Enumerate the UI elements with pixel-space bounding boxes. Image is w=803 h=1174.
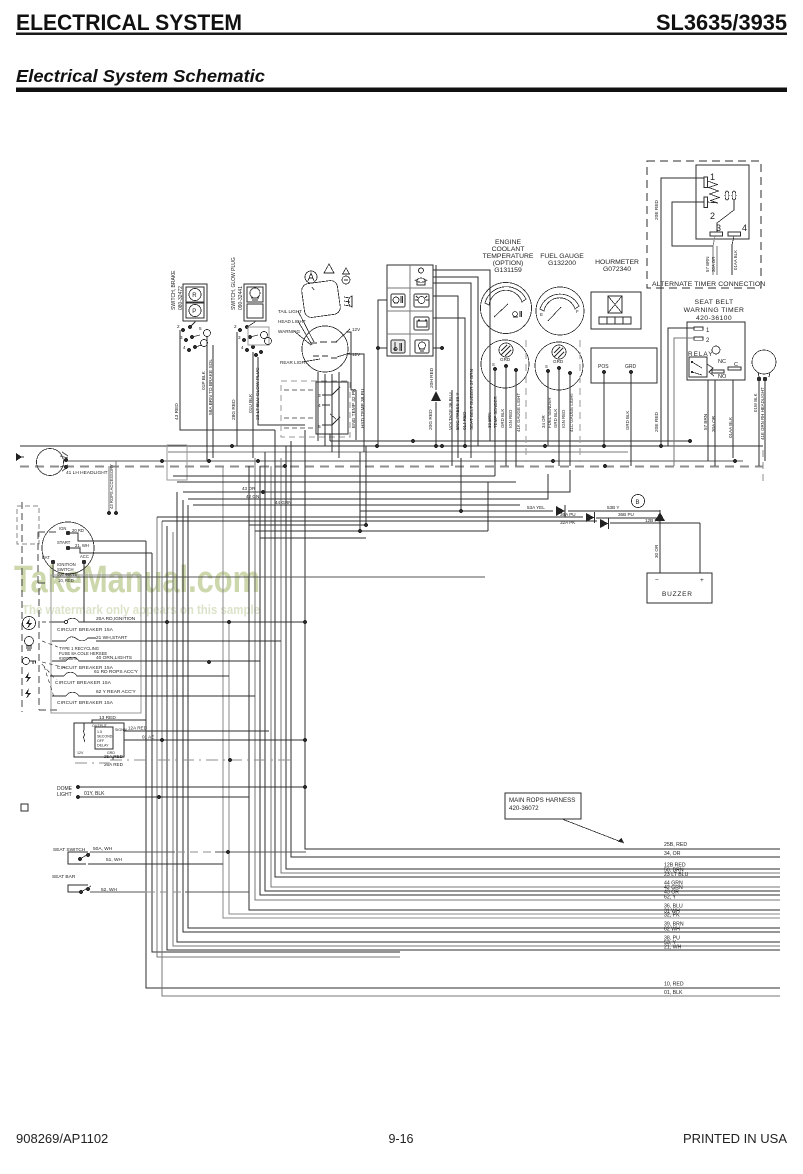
svg-text:10, RED: 10, RED	[664, 982, 684, 988]
svg-text:62, Y: 62, Y	[664, 895, 677, 901]
wire 34 OR	[291, 441, 780, 857]
svg-text:23 LT BLU: 23 LT BLU	[664, 872, 689, 878]
svg-text:MAIN ROPS HARNESS: MAIN ROPS HARNESS	[509, 797, 575, 804]
svg-text:IGN: IGN	[59, 526, 66, 531]
svg-text:39 BRN: 39 BRN	[487, 413, 492, 428]
header underline rule	[16, 33, 787, 36]
svg-text:30 OR: 30 OR	[654, 544, 659, 558]
timer 30A OR wire	[714, 380, 716, 466]
icon seat belt person	[415, 268, 427, 285]
svg-text:ALTERNATE TIMER CONNECTION: ALTERNATE TIMER CONNECTION	[652, 281, 765, 288]
fuse panel boundary (grey)	[51, 575, 141, 713]
icon: lightning 1	[25, 672, 31, 683]
alt timer pin3 wires 57BRN 30A OR	[713, 236, 717, 275]
wire 21 WH lower	[167, 526, 780, 950]
fuse F1 recycling	[52, 635, 127, 661]
svg-text:9-16: 9-16	[388, 1132, 413, 1146]
svg-text:+: +	[700, 577, 704, 584]
dashed boundary icon column	[22, 502, 60, 712]
svg-text:GRD BLK: GRD BLK	[625, 411, 630, 430]
svg-text:VOLTAGE 36 BLU: VOLTAGE 36 BLU	[448, 392, 453, 430]
svg-text:01, BLK: 01, BLK	[664, 990, 683, 996]
svg-text:090-32035: 090-32035	[57, 572, 78, 577]
svg-text:1: 1	[710, 172, 715, 182]
wire 44 GRN	[271, 466, 780, 887]
svg-text:53A YEL: 53A YEL	[527, 505, 545, 510]
icon battery cell	[414, 317, 429, 330]
flasher module	[281, 381, 350, 441]
svg-text:OUTPUT: OUTPUT	[92, 724, 108, 728]
fuel dashed boundary	[579, 340, 581, 462]
warning triangle small + circle	[342, 268, 350, 284]
icon temp cell	[391, 340, 405, 353]
wire 10 RED	[146, 541, 780, 988]
dashed boundary around ignition	[38, 532, 60, 583]
LH headlight lamp 41	[37, 449, 108, 477]
svg-text:HYD TEMP 38 PU: HYD TEMP 38 PU	[360, 388, 366, 428]
grey harness outline box	[167, 445, 187, 480]
grid wires left	[378, 300, 387, 348]
svg-text:Electrical System Schematic: Electrical System Schematic	[16, 66, 265, 86]
svg-text:01AA BLK: 01AA BLK	[728, 416, 733, 438]
wire mid y525	[249, 524, 366, 526]
svg-text:34 OR: 34 OR	[541, 415, 546, 428]
svg-text:21, WH: 21, WH	[75, 543, 89, 548]
svg-text:DELAY: DELAY	[97, 744, 109, 748]
svg-text:01J RED: 01J RED	[462, 411, 467, 430]
wire 58A BRN to brake sol	[212, 345, 214, 458]
alt timer pin4 wire 01AA BLK	[732, 236, 734, 275]
svg-text:4: 4	[318, 403, 321, 409]
svg-text:TEMPERATURE: TEMPERATURE	[483, 253, 534, 260]
wire 25A RED	[112, 757, 114, 760]
svg-text:3: 3	[716, 223, 721, 233]
fuel sender	[535, 342, 583, 390]
circled node B	[632, 495, 645, 508]
svg-text:2: 2	[234, 324, 237, 329]
svg-text:20G RED: 20G RED	[428, 409, 434, 430]
svg-text:57 BRN: 57 BRN	[703, 414, 708, 430]
temp gauge meter	[481, 283, 532, 334]
wire 42 GN upper	[188, 474, 548, 499]
wire breaker4 out	[92, 695, 255, 697]
footer doc number	[16, 1131, 787, 1146]
timer pin1 wire	[668, 328, 694, 446]
wire 43 RED from brake	[180, 330, 275, 430]
switch, brake 080-32472	[171, 270, 207, 321]
svg-text:IGN RED: IGN RED	[561, 410, 566, 428]
brake switch pins	[177, 321, 211, 352]
svg-text:POS: POS	[598, 364, 609, 370]
svg-text:420-36072: 420-36072	[509, 805, 539, 812]
svg-text:61 RD ROPS ACC'Y: 61 RD ROPS ACC'Y	[94, 669, 139, 675]
svg-text:1: 1	[706, 328, 710, 334]
icon: key	[23, 658, 37, 665]
svg-text:C: C	[734, 362, 738, 368]
circuit breaker CB2 15A (lights)	[52, 655, 132, 670]
svg-text:41 LH HEADLIGHT: 41 LH HEADLIGHT	[66, 470, 108, 476]
dome light	[57, 785, 105, 799]
svg-text:23 LT BLU GLOW PLUG: 23 LT BLU GLOW PLUG	[255, 367, 261, 420]
svg-text:090-32441: 090-32441	[238, 286, 244, 310]
svg-text:SECOND: SECOND	[97, 735, 113, 739]
diode D1 53A YEL	[360, 505, 660, 517]
wire seat bar 52	[90, 891, 249, 893]
circuit breaker CB3 15A (ROPS accy)	[50, 669, 139, 685]
svg-text:01P BLK: 01P BLK	[201, 370, 207, 390]
grid wires right	[433, 283, 471, 446]
temp dashed boundary	[525, 340, 527, 462]
svg-text:40 ORN,LIGHTS: 40 ORN,LIGHTS	[96, 655, 132, 661]
svg-text:2: 2	[706, 338, 710, 344]
svg-text:−: −	[655, 577, 659, 584]
timer pin2 wire	[674, 338, 694, 466]
svg-text:ENGINE: ENGINE	[495, 239, 522, 246]
circuit breaker CB4 15A (rear accy)	[52, 689, 136, 705]
svg-text:4: 4	[241, 345, 244, 350]
svg-text:44 GRN: 44 GRN	[275, 500, 292, 505]
svg-text:PRINTED IN USA: PRINTED IN USA	[683, 1131, 787, 1146]
vertical x488	[461, 458, 488, 531]
wire 62 Y	[255, 458, 780, 900]
svg-text:50A, WH: 50A, WH	[93, 846, 113, 852]
RH headlight lamp	[752, 350, 776, 440]
svg-text:20E RED: 20E RED	[654, 199, 660, 220]
svg-text:IGN RED: IGN RED	[508, 410, 513, 428]
svg-text:21 WH,START: 21 WH,START	[96, 635, 127, 641]
svg-text:NO: NO	[718, 374, 727, 380]
warning icon circled A	[305, 271, 317, 283]
wire mid y531	[255, 530, 488, 532]
svg-text:S: S	[545, 364, 548, 369]
wire 42 GRN	[265, 452, 780, 891]
icon: lightning 2	[25, 688, 31, 699]
svg-text:42 GN: 42 GN	[246, 494, 259, 499]
svg-text:SEAT BELT BUZZER 37 BRN: SEAT BELT BUZZER 37 BRN	[469, 369, 474, 430]
svg-text:420-36100: 420-36100	[696, 315, 732, 322]
svg-text:G131159: G131159	[494, 267, 522, 274]
svg-text:62 WH: 62 WH	[664, 927, 680, 933]
svg-text:5: 5	[199, 326, 202, 331]
wire 12A RED	[124, 730, 269, 732]
svg-text:20A RD,IGNITION: 20A RD,IGNITION	[96, 616, 136, 622]
svg-text:REAR LIGHT: REAR LIGHT	[280, 360, 308, 365]
wire 01U BLK	[252, 352, 254, 458]
timer 01AA BLK wire	[732, 380, 734, 458]
svg-text:01U BLK: 01U BLK	[248, 393, 254, 413]
seat switch	[52, 846, 123, 893]
wire 12B RED	[286, 446, 780, 869]
wire: bus y452 segment	[168, 451, 628, 453]
diode D2 36A PU	[157, 512, 660, 523]
svg-text:2: 2	[177, 324, 180, 329]
wire start 21WH to bundle	[70, 548, 152, 553]
wire 23 LT BLU	[275, 430, 780, 877]
svg-text:62 Y REAR ACC'Y: 62 Y REAR ACC'Y	[96, 689, 136, 695]
svg-text:SEAT BAR: SEAT BAR	[52, 874, 76, 880]
svg-text:20E RED: 20E RED	[654, 411, 660, 432]
svg-text:01AA BLK: 01AA BLK	[733, 250, 738, 270]
wire 62 WH	[183, 500, 780, 932]
wire hyd temp 38 PU	[346, 354, 364, 452]
svg-text:58A BRN TO BRAKE SOL: 58A BRN TO BRAKE SOL	[208, 359, 214, 415]
svg-text:START: START	[57, 540, 71, 545]
wire 01 BLK	[162, 521, 780, 996]
svg-text:GRD: GRD	[553, 359, 564, 364]
svg-text:12A RED: 12A RED	[128, 726, 148, 731]
diode D3 32A PK	[162, 518, 700, 529]
svg-text:25A RED: 25A RED	[104, 754, 124, 759]
svg-text:GRD BLK: GRD BLK	[500, 409, 505, 428]
svg-text:12V: 12V	[77, 751, 84, 755]
svg-text:43 RED: 43 RED	[174, 403, 180, 420]
junction dots on buses	[64, 439, 737, 469]
wire 36 BLU	[249, 466, 780, 910]
wire: main bus y446	[20, 445, 763, 447]
svg-text:BUZZER: BUZZER	[662, 591, 693, 598]
wire acc drop	[83, 564, 85, 622]
wire breaker3 out	[90, 675, 229, 677]
circuit breaker CB1 15A (ignition)	[52, 616, 136, 632]
wire temp sender S run	[173, 475, 495, 477]
subtitle thick bar	[16, 88, 787, 93]
svg-text:12V: 12V	[352, 327, 361, 332]
svg-text:3: 3	[238, 335, 241, 340]
svg-text:FUEL SENDER: FUEL SENDER	[547, 397, 552, 428]
alt timer 20E RED wire	[661, 178, 704, 446]
temp sender	[481, 340, 529, 388]
svg-text:01 AE: 01 AE	[142, 735, 154, 740]
svg-text:G072340: G072340	[603, 266, 631, 273]
svg-text:43 ROPS ACCESSORY: 43 ROPS ACCESSORY	[109, 464, 114, 509]
wire gauge grd run	[177, 481, 516, 483]
subtitle Electrical System Schematic	[16, 66, 265, 86]
icon: lightning circle	[23, 617, 36, 630]
svg-text:30A OR: 30A OR	[711, 257, 716, 272]
svg-text:41E ORN RH HEADLIGHT: 41E ORN RH HEADLIGHT	[760, 387, 765, 440]
svg-text:43 OR: 43 OR	[242, 486, 256, 491]
glow switch pins	[234, 321, 272, 357]
wire 39 BRN	[188, 505, 780, 928]
svg-text:21, WH: 21, WH	[664, 945, 682, 951]
svg-text:OFF: OFF	[97, 739, 105, 743]
switch, glow plug 090-32441	[231, 257, 266, 321]
svg-text:5: 5	[318, 424, 321, 430]
svg-text:ACC: ACC	[80, 554, 89, 559]
fuel gauge meter	[536, 287, 584, 335]
wire 53 Y	[173, 532, 780, 946]
svg-text:CIRCUIT BREAKER 15A: CIRCUIT BREAKER 15A	[57, 700, 114, 705]
light switch rotary	[278, 309, 361, 372]
svg-text:01Y, BLK: 01Y, BLK	[84, 791, 105, 797]
wire fuse out	[96, 640, 281, 642]
wire 38 PU	[177, 492, 780, 942]
svg-text:SWITCH, GLOW PLUG: SWITCH, GLOW PLUG	[231, 257, 237, 310]
svg-text:P: P	[192, 309, 196, 315]
wire 23 LT BLU glow plug	[258, 357, 305, 425]
wire 26A RED dash-dot	[75, 760, 290, 763]
svg-text:CIRCUIT BREAKER 15A: CIRCUIT BREAKER 15A	[57, 627, 114, 632]
svg-text:41K GAUGE LIGHT: 41K GAUGE LIGHT	[516, 393, 521, 432]
wire: bus y441 right segment	[330, 440, 690, 442]
svg-text:NC: NC	[718, 359, 726, 365]
wire breaker1 out	[92, 621, 305, 623]
wire 50 BRN	[281, 458, 780, 873]
hourmeter	[591, 292, 641, 329]
watermark TakeManual.com	[14, 559, 260, 617]
rocker pad tilted rounded square	[301, 280, 341, 319]
svg-text:36B PU: 36B PU	[618, 512, 634, 517]
temp sender wires	[495, 368, 516, 476]
icon glow plug cell	[391, 294, 405, 307]
wire 32 PK	[223, 466, 780, 918]
wire dome 1	[80, 786, 305, 788]
wire 01AE	[124, 739, 305, 741]
wire: bus y461	[63, 460, 743, 462]
wire: dashed ground bus y466	[20, 466, 763, 468]
svg-text:COOLANT: COOLANT	[492, 246, 525, 253]
headlight beam icon	[344, 296, 352, 307]
dashed links icons to breakers	[42, 622, 66, 697]
svg-text:ENG PRESS 33 Y: ENG PRESS 33 Y	[455, 393, 460, 430]
icon engine fan cell	[414, 294, 429, 307]
MAIN ROPS HARNESS label box	[505, 793, 581, 819]
svg-text:20 RD: 20 RD	[72, 528, 84, 533]
svg-text:SEAT BELT: SEAT BELT	[694, 299, 733, 306]
wire 28G RED	[236, 332, 238, 446]
time delay module 1.5s	[74, 715, 154, 767]
svg-text:57 BRN: 57 BRN	[705, 257, 710, 272]
icon bulb cell	[415, 340, 429, 353]
svg-text:CIRCUIT BREAKER 15A: CIRCUIT BREAKER 15A	[55, 680, 112, 685]
wire 01P BLK	[206, 336, 208, 461]
header title ELECTRICAL SYSTEM	[16, 10, 787, 35]
svg-text:SWITCH, BRAKE: SWITCH, BRAKE	[171, 270, 177, 310]
ignition switch 090-32035	[42, 522, 94, 583]
svg-text:51, WH: 51, WH	[106, 857, 123, 863]
svg-text:4: 4	[183, 345, 186, 350]
diode D4 vertical 30 OR	[654, 510, 665, 573]
svg-text:25B, RED: 25B, RED	[664, 842, 687, 848]
svg-text:SIGNAL: SIGNAL	[115, 728, 128, 732]
svg-text:HEAD LIGHT: HEAD LIGHT	[278, 319, 306, 324]
harness wire labels right side	[664, 842, 689, 996]
svg-text:20H RED: 20H RED	[429, 367, 435, 388]
buzzer	[647, 573, 712, 603]
wire bat 10 RED down	[53, 564, 485, 577]
wire 25B RED	[305, 430, 780, 849]
svg-text:TEMP SENDER: TEMP SENDER	[493, 396, 498, 428]
svg-text:BAT: BAT	[42, 555, 50, 560]
pos/grd terminal box	[591, 348, 657, 383]
svg-text:WARNING TIMER: WARNING TIMER	[684, 307, 745, 314]
engine coolant temp gauge labels	[483, 239, 639, 274]
wire breaker2 out	[92, 660, 260, 662]
pos/grd wires	[604, 374, 631, 466]
svg-text:53B Y: 53B Y	[607, 505, 619, 510]
fuel sender wires	[548, 370, 570, 466]
svg-text:32A PK: 32A PK	[560, 520, 576, 525]
svg-text:(OPTION): (OPTION)	[493, 260, 524, 267]
svg-text:LIGHT: LIGHT	[57, 792, 72, 798]
wire ign 20RD to bundle	[70, 533, 146, 541]
wire dome 2	[80, 796, 249, 798]
svg-text:41C GAUGE LIGHT: 41C GAUGE LIGHT	[569, 392, 574, 432]
svg-text:HOURMETER: HOURMETER	[595, 259, 639, 266]
wire 43 ROPS accessory drop	[107, 461, 118, 515]
alt timer pin2 loop wire	[672, 202, 713, 246]
wire stub a	[152, 553, 400, 952]
svg-text:E: E	[540, 312, 543, 317]
left margin tick	[16, 456, 24, 458]
svg-text:SL3635/3935: SL3635/3935	[656, 10, 787, 35]
wire 43 OR upper	[183, 470, 570, 494]
light switch drops	[318, 372, 339, 458]
wire seat switch 50A	[90, 851, 306, 853]
svg-text:GRD BLK: GRD BLK	[553, 409, 558, 428]
svg-text:34, OR: 34, OR	[664, 851, 681, 857]
wire 44 GRN upper	[193, 500, 520, 505]
wire stub b	[157, 517, 400, 957]
svg-text:F: F	[576, 309, 579, 314]
svg-text:3: 3	[180, 335, 183, 340]
svg-text:32, PK: 32, PK	[664, 913, 680, 919]
warning triangle big	[324, 264, 334, 273]
wire eng temp 32 PK	[346, 332, 356, 440]
wire mid y538	[260, 537, 366, 539]
vertical x366	[360, 446, 366, 531]
svg-text:1.5: 1.5	[97, 730, 102, 734]
wire 20H/20G RED diode feed	[428, 265, 441, 446]
svg-text:ELECTRICAL SYSTEM: ELECTRICAL SYSTEM	[16, 10, 242, 35]
leader arrow to harness	[562, 819, 624, 843]
svg-text:3: 3	[318, 393, 321, 399]
icon: glow bulb	[25, 637, 34, 651]
svg-text:S: S	[492, 362, 495, 367]
connector grid frame	[387, 265, 433, 356]
wires voltage/engpress/seatbelt	[448, 283, 474, 466]
svg-text:2: 2	[710, 211, 715, 221]
timer 57 BRN wire	[707, 380, 709, 461]
svg-text:908269/AP1102: 908269/AP1102	[16, 1131, 108, 1146]
svg-text:GRD: GRD	[625, 364, 637, 370]
svg-text:12V: 12V	[352, 352, 361, 357]
seat bar switch	[68, 885, 91, 894]
svg-text:FUEL GAUGE: FUEL GAUGE	[540, 253, 584, 260]
svg-text:36A PU: 36A PU	[560, 512, 576, 517]
svg-text:G132200: G132200	[548, 260, 576, 267]
svg-text:GRD: GRD	[500, 357, 511, 362]
svg-text:R: R	[192, 293, 197, 299]
svg-text:01W BLK: 01W BLK	[753, 393, 758, 412]
svg-text:4: 4	[742, 223, 747, 233]
buzzer + feed wire	[699, 523, 701, 573]
wire seat switch 51	[88, 863, 223, 865]
RH headlight wires	[759, 381, 765, 466]
wire 43 OR lower	[260, 466, 780, 895]
svg-text:28G RED: 28G RED	[231, 399, 237, 420]
svg-text:ENG TEMP 32 PK: ENG TEMP 32 PK	[351, 388, 357, 428]
svg-text:B: B	[636, 500, 640, 506]
svg-text:10, RED: 10, RED	[58, 578, 74, 583]
wire 51 WH	[229, 622, 780, 914]
svg-text:30A OR: 30A OR	[711, 415, 716, 432]
